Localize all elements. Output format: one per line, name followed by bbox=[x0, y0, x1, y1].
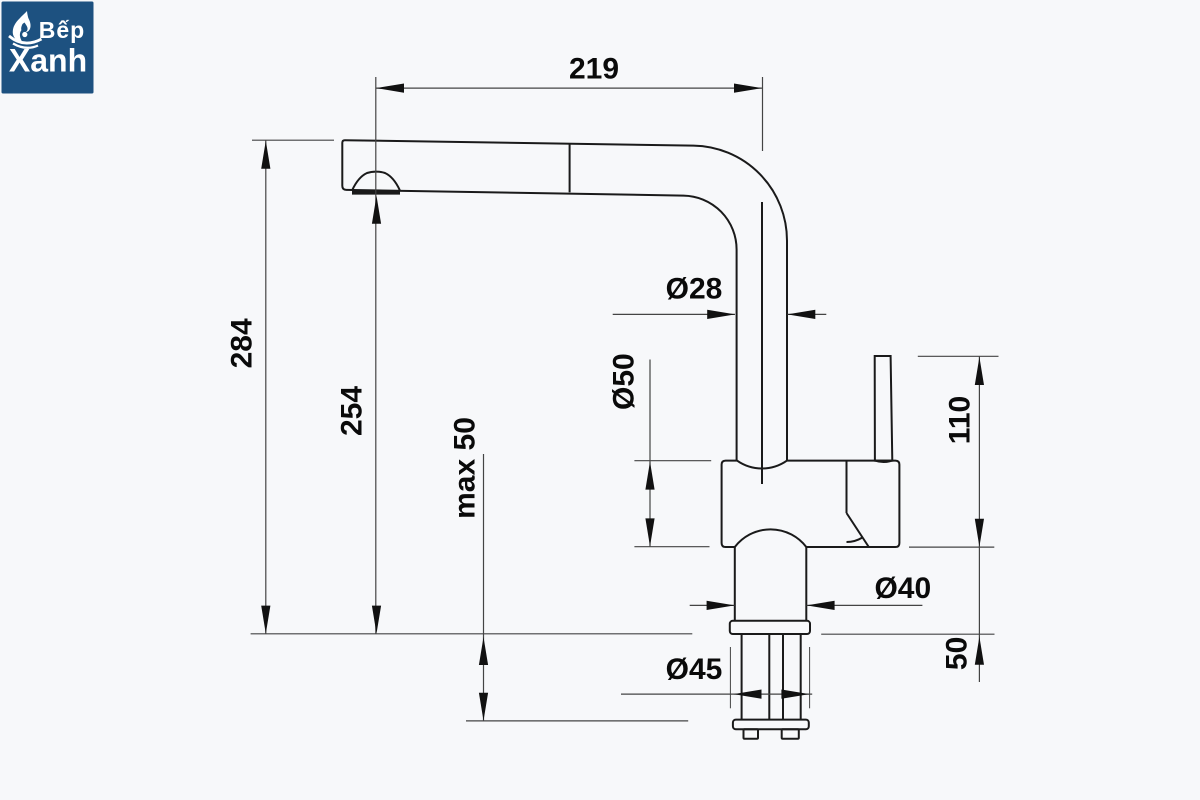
svg-text:Bếp: Bếp bbox=[39, 17, 85, 43]
arrow dim 284 bottom bbox=[261, 606, 270, 634]
arrow dim O28 left bbox=[707, 310, 735, 319]
body bbox=[722, 461, 900, 547]
svg-text:Ø50: Ø50 bbox=[608, 353, 641, 410]
dim O40 line left bbox=[690, 604, 735, 606]
dim 110 top extension bbox=[918, 355, 999, 357]
dim 110 bottom extension bbox=[909, 546, 994, 548]
svg-text:219: 219 bbox=[569, 53, 619, 86]
dim O40 line right bbox=[807, 604, 923, 606]
dim 219 right extension bbox=[762, 77, 764, 151]
logo swoosh bbox=[9, 36, 42, 43]
dim O45 line bbox=[621, 693, 812, 695]
flange bbox=[730, 621, 810, 634]
arrow dim max50 top bbox=[479, 637, 488, 665]
dim O45 left extension bbox=[729, 647, 731, 708]
countertop line left bbox=[251, 633, 693, 635]
dim 219 line bbox=[376, 87, 763, 89]
svg-text:max 50: max 50 bbox=[448, 417, 481, 519]
svg-text:Ø45: Ø45 bbox=[666, 653, 723, 686]
aerator bbox=[352, 172, 400, 191]
arrow dim 219 left bbox=[376, 84, 404, 93]
svg-text:254: 254 bbox=[336, 386, 369, 436]
dim O28 line left bbox=[613, 313, 735, 315]
arrow dim 284 top bbox=[261, 141, 270, 169]
dim 219 left extension / dim 254 line bbox=[375, 77, 377, 634]
handle stick bbox=[875, 356, 893, 461]
arrow dim 254 top bbox=[372, 196, 381, 224]
dim O50 top extension bbox=[634, 460, 711, 462]
shank hose lines bbox=[768, 634, 770, 720]
svg-text:Xanh: Xanh bbox=[9, 43, 87, 79]
svg-text:110: 110 bbox=[944, 396, 977, 444]
handle arc detail bbox=[847, 538, 863, 542]
arrow dim O45 left bbox=[734, 690, 762, 699]
arrow dim O28 right bbox=[787, 310, 815, 319]
svg-text:Ø28: Ø28 bbox=[666, 273, 723, 306]
arrow dim 219 right bbox=[734, 84, 762, 93]
tabs bbox=[744, 729, 759, 738]
arrow dim 50 bbox=[975, 637, 984, 665]
bottom plate bbox=[733, 720, 809, 730]
dim O50 bottom extension bbox=[634, 546, 709, 548]
svg-text:50: 50 bbox=[941, 637, 974, 670]
logo flame icon bbox=[13, 11, 31, 42]
arrow dim max50 bottom bbox=[479, 693, 488, 721]
dim 284 line bbox=[265, 140, 267, 634]
arrow dim O50 bottom bbox=[645, 518, 654, 546]
body/handle separation bbox=[846, 461, 848, 513]
arrow dim O40 right bbox=[807, 601, 835, 610]
dim max50 line bbox=[483, 454, 485, 721]
handle diagonal bbox=[847, 513, 869, 547]
pull-out hose line bbox=[761, 202, 763, 484]
countertop line right bbox=[821, 633, 994, 635]
arrow dim 110 top bbox=[975, 357, 984, 385]
arrow dim 254 bottom bbox=[372, 606, 381, 634]
shank outer bbox=[741, 634, 743, 720]
dim O45 right extension bbox=[809, 647, 811, 708]
mounting depth line bbox=[466, 720, 688, 722]
dim O28 line right bbox=[788, 313, 827, 315]
spout outline bbox=[342, 140, 787, 461]
spout division line bbox=[569, 144, 571, 193]
logo Bep Xanh bbox=[2, 2, 94, 94]
svg-text:284: 284 bbox=[225, 318, 258, 368]
dim 284 top extension bbox=[252, 139, 334, 141]
base cylinder sides bbox=[734, 547, 736, 621]
arrow dim O40 left bbox=[707, 601, 735, 610]
aerator face bar bbox=[352, 190, 400, 194]
svg-text:Ø40: Ø40 bbox=[874, 572, 931, 605]
logo blue square bbox=[2, 2, 94, 94]
dim O50 line bbox=[649, 360, 651, 547]
arrow dim 110 bottom bbox=[975, 519, 984, 547]
dim 110 and 50 line bbox=[978, 357, 980, 683]
arrow dim O50 top bbox=[645, 462, 654, 490]
arrow dim O45 right bbox=[781, 690, 809, 699]
